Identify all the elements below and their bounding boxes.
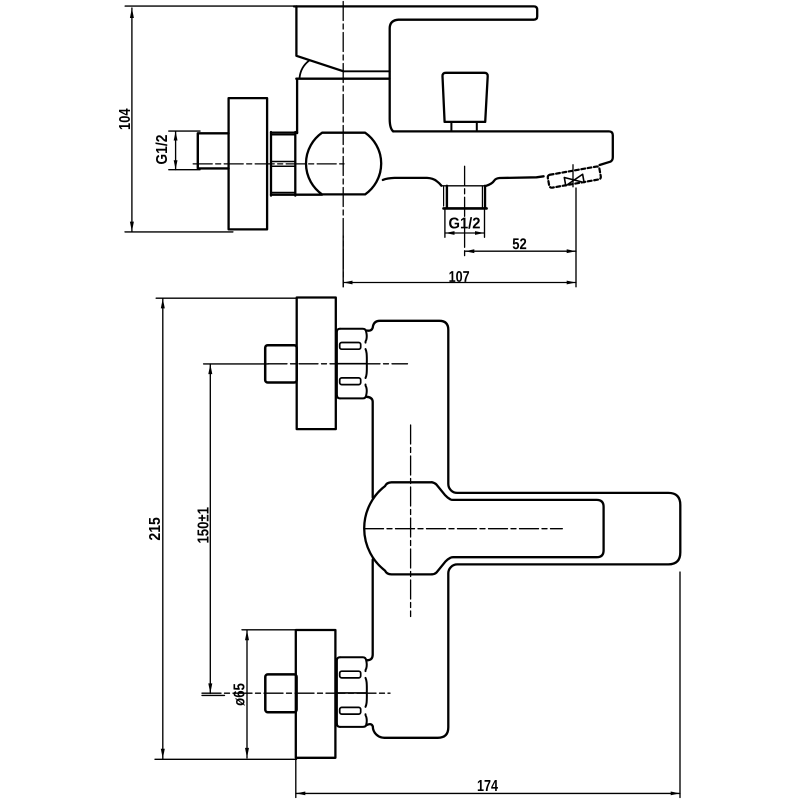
svg-text:215: 215 [147, 517, 164, 541]
svg-text:52: 52 [512, 236, 527, 253]
svg-text:174: 174 [477, 778, 498, 795]
svg-text:G1/2: G1/2 [448, 215, 480, 232]
svg-text:104: 104 [117, 108, 134, 130]
svg-text:107: 107 [449, 269, 470, 286]
svg-text:G1/2: G1/2 [154, 134, 171, 164]
svg-text:ø65: ø65 [232, 683, 249, 706]
svg-text:150±1: 150±1 [196, 507, 213, 544]
